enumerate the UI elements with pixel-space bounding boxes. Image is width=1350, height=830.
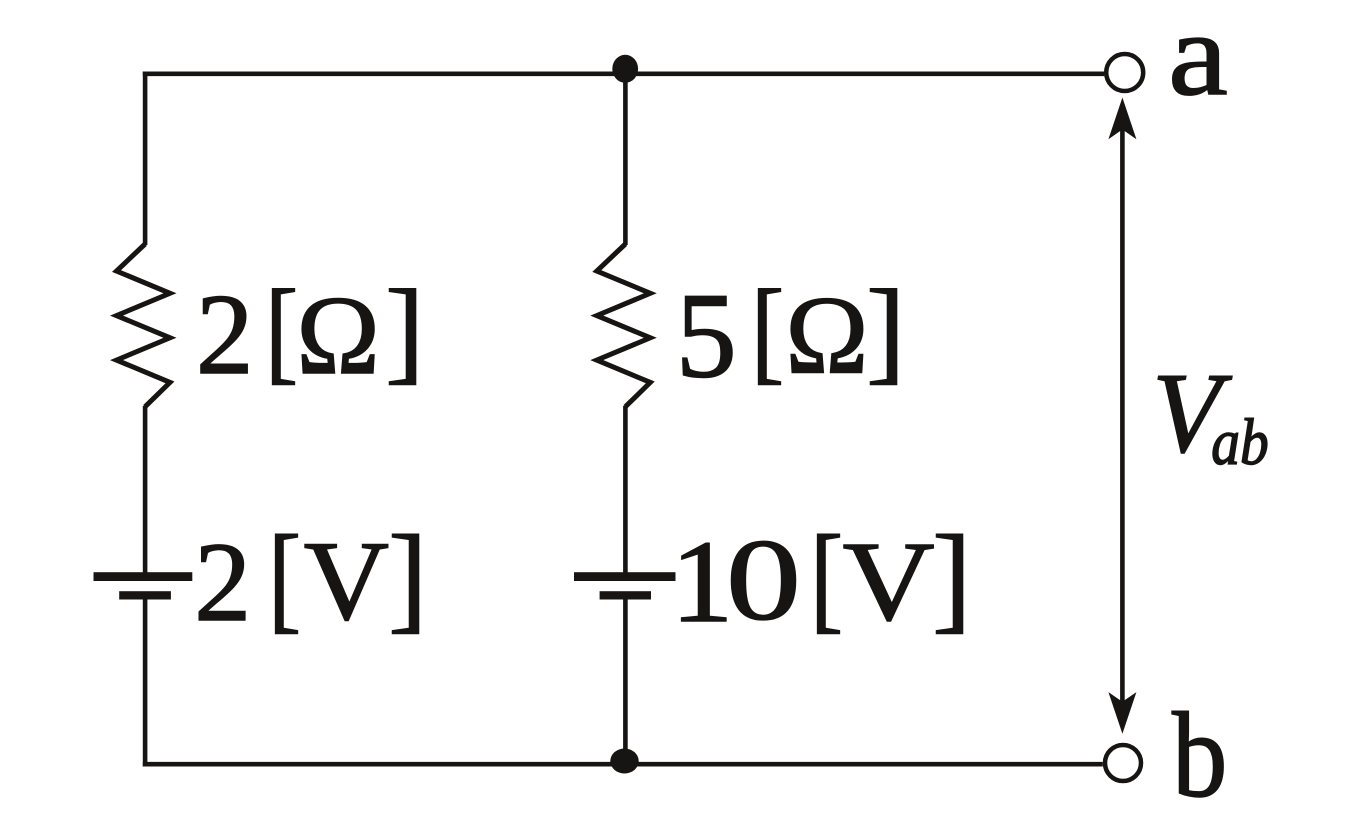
- svg-text:V: V: [843, 518, 935, 644]
- wire: middle branch lower segment: [623, 599, 628, 764]
- svg-text:]: ]: [932, 510, 971, 643]
- svg-text:[: [: [265, 267, 298, 395]
- svg-text:0: 0: [726, 516, 801, 645]
- svg-text:V: V: [304, 518, 389, 644]
- svg-text:]: ]: [385, 267, 424, 395]
- resistor 5[ohm] zigzag: [597, 244, 651, 407]
- arrowhead: Vab arrow lower (points down at node b): [1108, 692, 1136, 734]
- wire: bottom horizontal rail (node b): [143, 762, 1103, 767]
- battery 2[V]: short negative plate: [119, 591, 171, 599]
- wire: middle branch upper segment: [623, 74, 628, 245]
- label: value 2[ohm]: [196, 267, 424, 398]
- svg-text:[: [: [751, 267, 784, 395]
- wire: left branch between resistor and battery: [143, 406, 148, 573]
- battery 10[V]: short negative plate: [600, 591, 651, 599]
- junction: top node dot: [612, 55, 638, 83]
- wire: Vab arrow shaft: [1120, 128, 1125, 703]
- svg-text:ab: ab: [1211, 407, 1268, 479]
- svg-text:b: b: [1172, 689, 1227, 823]
- svg-text:]: ]: [388, 510, 427, 643]
- label: value 5[ohm]: [676, 267, 906, 404]
- svg-text:[: [: [810, 510, 843, 643]
- svg-text:Ω: Ω: [785, 274, 868, 398]
- wire: left branch upper segment: [143, 72, 148, 246]
- battery 2[V]: long positive plate: [94, 572, 193, 581]
- svg-text:2: 2: [194, 519, 251, 645]
- terminal b (open circle): [1105, 745, 1141, 781]
- label: value 2[V]: [194, 510, 427, 645]
- arrowhead: Vab arrow upper (points up at node a): [1108, 98, 1136, 140]
- svg-text:5: 5: [676, 269, 737, 404]
- junction: bottom node dot: [610, 749, 638, 774]
- svg-text:Ω: Ω: [296, 274, 379, 398]
- resistor 2[ohm] zigzag: [117, 244, 171, 407]
- wire: middle branch between resistor and battery: [623, 406, 628, 573]
- svg-text:1: 1: [671, 516, 734, 647]
- svg-text:a: a: [1168, 0, 1228, 120]
- label: value 10[V]: [671, 510, 972, 647]
- label: Vab (italic V with subscript ab): [1152, 349, 1269, 479]
- svg-text:2: 2: [196, 270, 254, 398]
- svg-text:[: [: [268, 510, 301, 643]
- svg-text:]: ]: [866, 267, 905, 395]
- wire: top horizontal rail (node a): [143, 72, 1105, 77]
- battery 10[V]: long positive plate: [574, 572, 676, 581]
- wire: left branch lower segment: [143, 599, 148, 767]
- terminal a (open circle): [1106, 54, 1143, 91]
